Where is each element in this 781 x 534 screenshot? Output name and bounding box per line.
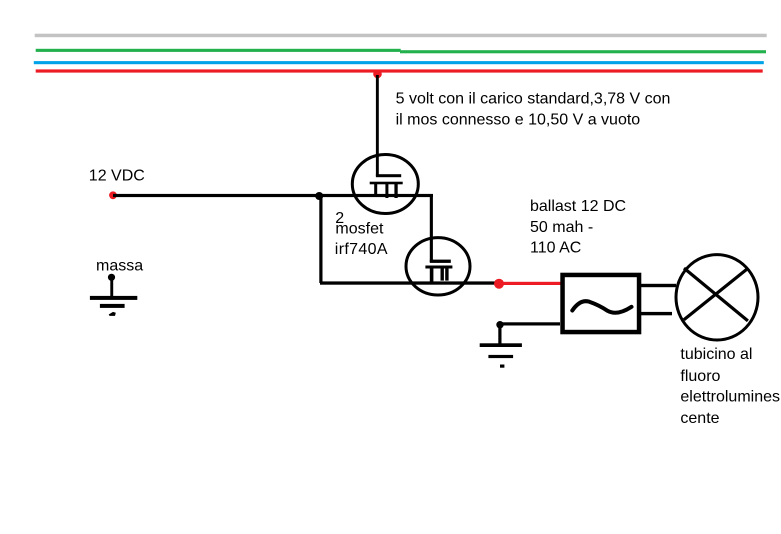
wire ballast to lamp upper (641, 284, 676, 287)
node massa terminal dot (108, 274, 115, 281)
node junction on red bus (373, 70, 382, 79)
ground bar 3 (500, 365, 504, 368)
svg-text:5 volt con il carico standard,: 5 volt con il carico standard,3,78 V con (396, 90, 671, 107)
node junction on 12 VDC rail (315, 192, 323, 200)
lamp circle (676, 255, 758, 340)
lamp X stroke 2 (684, 269, 747, 320)
transistor Q1 leg 2 (385, 184, 388, 198)
transistor Q2 gate bar (425, 266, 452, 269)
wire green bus line left segment (36, 49, 401, 52)
ground massa bar 2 (100, 304, 125, 308)
wire red bus line (5V supply) (36, 69, 763, 72)
ballast sine wave symbol (572, 301, 631, 313)
node ground junction dot (496, 321, 503, 328)
svg-text:il mos connesso e 10,50 V a vu: il mos connesso e 10,50 V a vuoto (396, 111, 641, 128)
ground stem below ballast (498, 325, 501, 346)
transistor Q1 leg 1 (374, 184, 377, 195)
ground massa stem (110, 277, 113, 299)
wire drain of U1 to red bus (376, 75, 379, 176)
transistor Q2 leg 3 (445, 269, 448, 281)
ground massa bar 1 (90, 296, 137, 300)
transistor Q1 drain bar (376, 174, 401, 177)
transistor Q1 gate bar (370, 182, 403, 185)
wire bottom horizontal to ballast (320, 281, 498, 284)
ground massa bar 3 (109, 312, 116, 316)
lamp X stroke 1 (684, 268, 748, 321)
svg-text:ballast 12 DC: ballast 12 DC (530, 198, 626, 215)
svg-text:massa: massa (96, 257, 143, 274)
wire ballast to lamp lower (641, 312, 672, 315)
transistor Q1 leg 3 (394, 184, 397, 198)
ground bar 1 (480, 343, 522, 347)
svg-text:fluoro: fluoro (680, 368, 720, 385)
wire 12 VDC horizontal rail (113, 194, 433, 197)
wire left vertical drop (319, 196, 322, 283)
wire blue bus line (34, 61, 764, 64)
wire red output to ballast (503, 282, 561, 285)
wire green bus line right segment (400, 50, 766, 53)
node 12 VDC terminal (109, 191, 117, 199)
svg-text:110 AC: 110 AC (530, 239, 581, 256)
svg-text:tubicino al: tubicino al (680, 346, 752, 363)
ground bar 2 (488, 355, 513, 358)
transistor Q2 drain bar (430, 260, 451, 263)
transistor Q2 mosfet circle (406, 238, 470, 295)
ballast box (563, 275, 640, 332)
transistor Q2 leg 1 (430, 269, 434, 285)
svg-text:cente: cente (680, 410, 719, 427)
node output junction red dot (494, 279, 504, 289)
svg-text:irf740A: irf740A (335, 241, 388, 258)
wire gray bus line (35, 34, 767, 38)
svg-text:elettrolumines: elettrolumines (680, 389, 780, 406)
transistor Q2 leg 2 (441, 269, 444, 281)
svg-text:12 VDC: 12 VDC (89, 167, 145, 184)
svg-text:50 mah -: 50 mah - (530, 219, 593, 236)
wire ballast bottom to ground (500, 322, 560, 325)
svg-text:mosfet: mosfet (335, 220, 384, 237)
transistor Q1 mosfet circle (352, 155, 418, 214)
wire right vertical to Q2 drain (430, 195, 433, 262)
